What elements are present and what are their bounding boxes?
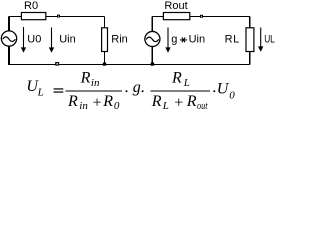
- svg-text:Uin: Uin: [59, 34, 76, 46]
- svg-text:RL: RL: [225, 34, 240, 46]
- svg-text:Rout: Rout: [164, 0, 187, 12]
- svg-text:g: g: [171, 33, 177, 45]
- svg-text:L: L: [183, 77, 190, 89]
- svg-text:L: L: [37, 86, 44, 98]
- svg-text:0: 0: [229, 90, 235, 102]
- svg-text:R: R: [80, 69, 91, 86]
- svg-text:L: L: [162, 100, 169, 112]
- svg-text:+: +: [92, 95, 103, 112]
- svg-text:in: in: [79, 100, 88, 112]
- svg-text:0: 0: [114, 100, 120, 112]
- svg-text:R: R: [67, 93, 78, 110]
- svg-text:+: +: [173, 95, 184, 112]
- svg-text:R: R: [186, 93, 197, 110]
- svg-text:UL: UL: [264, 33, 275, 45]
- svg-text:U: U: [217, 81, 230, 98]
- svg-text:in: in: [91, 77, 100, 89]
- svg-text:out: out: [197, 100, 208, 112]
- svg-text:Rin: Rin: [111, 33, 128, 45]
- svg-text:R: R: [102, 93, 113, 110]
- svg-text:R: R: [171, 70, 182, 87]
- svg-text:g: g: [133, 79, 141, 96]
- svg-text:Uin: Uin: [189, 33, 206, 45]
- svg-text:R: R: [151, 93, 162, 110]
- svg-text:U0: U0: [27, 34, 41, 46]
- svg-text:R0: R0: [24, 0, 38, 12]
